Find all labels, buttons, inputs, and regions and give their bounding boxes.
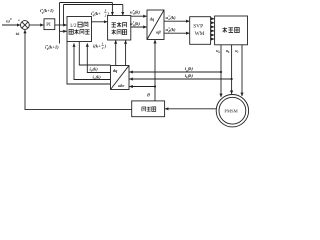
block text 逆变器 xyxy=(222,27,227,32)
wire vertical tap v1 with stub xyxy=(59,3,61,44)
wire ia tap xyxy=(129,71,221,73)
svg-text:i(k+: i(k+ xyxy=(93,43,101,48)
wire speed feedback xyxy=(25,30,132,110)
wire theta riser xyxy=(154,40,156,101)
wire iq riser to deadbeat xyxy=(125,40,127,65)
svg-text:3: 3 xyxy=(104,9,107,13)
block text 控制器 xyxy=(112,29,116,34)
wire ubeta xyxy=(164,32,189,34)
wire theta branch to abc-dq xyxy=(129,86,155,88)
wire sum to PI xyxy=(30,24,44,26)
wire prediction to deadbeat xyxy=(92,21,108,23)
wire phase c xyxy=(241,45,243,96)
wire top rail 1 xyxy=(60,2,113,4)
svg-text:SVP: SVP xyxy=(193,24,203,30)
block text 1/2时刻 (pseudo glyphs) xyxy=(78,22,82,27)
svg-text:WM: WM xyxy=(195,31,205,37)
motor PMSM xyxy=(216,95,248,127)
block prediction 1/2时刻电流预估 xyxy=(67,17,92,42)
wire ib tap xyxy=(129,78,231,80)
block encoder 编码器 xyxy=(132,101,165,117)
svg-text:ω: ω xyxy=(16,32,20,37)
wire id riser to deadbeat xyxy=(115,40,117,65)
wire gate signals x6 xyxy=(211,18,215,20)
wire motor shaft to encoder xyxy=(165,108,216,110)
block text 无差拍 xyxy=(112,22,116,27)
block voltage dq-ab transform xyxy=(147,10,164,40)
wire v1 branch into prediction input 2 xyxy=(60,30,67,32)
wire phase b xyxy=(231,45,233,94)
svg-text:PMSM: PMSM xyxy=(224,109,237,114)
svg-text:1/2: 1/2 xyxy=(70,23,77,29)
svg-text:2: 2 xyxy=(101,46,104,50)
svg-text:PI: PI xyxy=(46,23,51,28)
svg-text:αβ: αβ xyxy=(156,30,161,35)
block deadbeat 无差拍控制器 xyxy=(108,16,131,41)
svg-text:abc: abc xyxy=(118,83,124,88)
block PI xyxy=(44,19,55,30)
wire phase a xyxy=(220,45,222,97)
block inverter 逆变器 xyxy=(215,16,248,45)
summing junction xyxy=(21,21,30,30)
node: omega* input wire xyxy=(2,24,20,26)
wire id out to prediction riser xyxy=(87,43,110,72)
block text 编码器 xyxy=(142,107,146,111)
block text 电流预估 xyxy=(69,29,73,34)
wire deadbeat out uq xyxy=(131,26,147,28)
wire vertical tap v2 xyxy=(63,5,65,26)
wire prediction down line B xyxy=(79,42,110,65)
wire PI to prediction block xyxy=(55,24,67,26)
block SVPWM xyxy=(190,17,211,45)
wire ualpha xyxy=(164,20,189,22)
wire iq out to prediction riser xyxy=(74,43,110,79)
block currents abc-dq transform xyxy=(111,66,130,90)
svg-text:2: 2 xyxy=(104,13,107,17)
svg-text:1: 1 xyxy=(102,41,104,45)
wire left line D xyxy=(67,42,110,84)
junction dots xyxy=(220,71,222,73)
wire top rail 2 xyxy=(64,4,123,6)
wire deadbeat out ud xyxy=(131,15,147,17)
